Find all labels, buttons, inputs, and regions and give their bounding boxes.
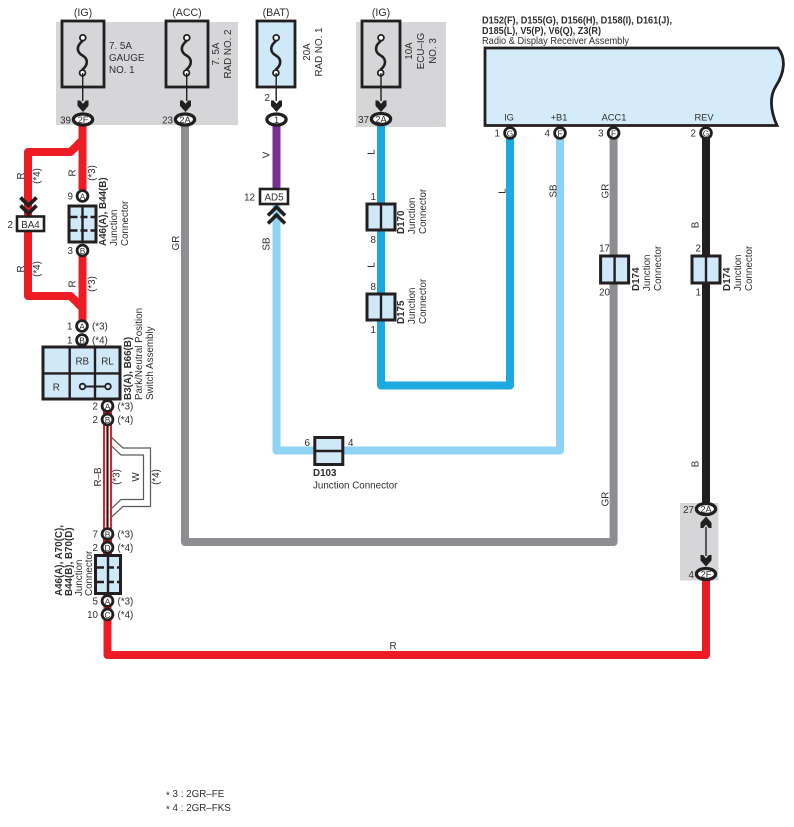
svg-text:2F: 2F <box>78 115 89 125</box>
svg-text:A: A <box>105 402 111 412</box>
svg-text:F: F <box>611 129 616 139</box>
svg-text:4: 4 <box>689 570 695 581</box>
svg-text:5: 5 <box>93 597 99 608</box>
svg-text:1: 1 <box>67 336 72 347</box>
svg-text:G: G <box>507 129 514 139</box>
wire R-B park/neutral to junction (red base) <box>103 399 112 556</box>
svg-text:Connector: Connector <box>653 245 664 291</box>
svg-text:2A: 2A <box>700 505 712 515</box>
svg-text:(*4): (*4) <box>92 336 108 347</box>
svg-text:B: B <box>691 221 702 228</box>
svg-text:RAD NO. 2: RAD NO. 2 <box>223 30 234 79</box>
svg-text:(IG): (IG) <box>372 7 390 19</box>
svg-text:G: G <box>703 129 710 139</box>
connector oval 2F pin 39 <box>73 114 92 125</box>
wire GR from ACC fuse to ACC1 <box>185 124 614 542</box>
svg-text:R–B: R–B <box>93 467 104 487</box>
svg-text:B3(A), B66(B): B3(A), B66(B) <box>123 337 134 400</box>
junction connector D170 body <box>367 204 395 230</box>
svg-text:BA4: BA4 <box>21 220 40 231</box>
svg-text:* 3 : 2GR–FE: * 3 : 2GR–FE <box>166 789 225 802</box>
svg-text:GR: GR <box>171 236 182 251</box>
svg-text:ECU–IG: ECU–IG <box>416 33 427 69</box>
svg-text:(*3): (*3) <box>92 322 108 333</box>
svg-text:F: F <box>557 129 562 139</box>
fuse F2 7.5A RAD NO.2 <box>166 21 208 87</box>
junction connector D174 (B) body <box>692 256 720 283</box>
svg-text:R: R <box>16 265 27 272</box>
svg-text:20: 20 <box>599 288 610 299</box>
connector oval 2A pin 23 <box>175 114 194 125</box>
svg-text:12: 12 <box>244 193 255 204</box>
svg-text:D103: D103 <box>313 468 337 479</box>
svg-text:Junction: Junction <box>407 198 418 235</box>
svg-text:D: D <box>104 543 110 553</box>
junction connector A46(A),A70(C),B44(B),B70(D) body <box>96 556 121 594</box>
svg-text:D175: D175 <box>396 300 407 324</box>
radio pin circle F pin4 <box>555 128 566 139</box>
svg-text:2: 2 <box>696 244 701 255</box>
svg-text:D174: D174 <box>722 267 733 291</box>
svg-text:(ACC): (ACC) <box>172 7 201 19</box>
fuse block background (IG/ACC fuses) <box>56 22 238 125</box>
wire R branch left (*4) through BA4 <box>28 140 83 308</box>
wire R-B black stripe <box>106 426 108 530</box>
svg-text:17: 17 <box>599 244 610 255</box>
svg-text:Connector: Connector <box>744 245 755 291</box>
svg-text:(*4): (*4) <box>118 543 134 554</box>
svg-text:AD5: AD5 <box>264 193 284 204</box>
svg-text:L: L <box>367 149 378 155</box>
wire R main from 2F down <box>79 124 87 190</box>
svg-text:3: 3 <box>598 129 604 140</box>
svg-text:(*4): (*4) <box>151 469 162 485</box>
wire R main B44 to park/neutral <box>79 255 87 322</box>
fuse F4 10A ECU-IG NO.3 <box>362 21 400 87</box>
connector oval 1 <box>267 114 286 125</box>
junction connector 2 pin C10 circle <box>102 609 113 620</box>
wire R-B white gap <box>105 426 110 530</box>
svg-text:8: 8 <box>371 282 377 293</box>
wire B from REV to 2A <box>702 136 710 504</box>
svg-text:A: A <box>80 192 86 202</box>
svg-text:A: A <box>105 597 111 607</box>
svg-text:GR: GR <box>601 184 612 199</box>
fuse block background (ECU-IG fuse) <box>356 22 446 127</box>
junction connector A46(A),B44(B) body <box>69 206 96 242</box>
svg-text:(*4): (*4) <box>118 610 134 621</box>
svg-text:2: 2 <box>265 93 270 104</box>
switch contact symbol <box>83 386 109 388</box>
junction connector D174 (GR) body <box>601 256 629 283</box>
park/neutral switch pin 2A circle <box>102 401 113 412</box>
svg-text:(*3): (*3) <box>87 165 98 181</box>
junction connector 2 pin D2 circle <box>102 542 113 553</box>
svg-text:W: W <box>131 472 142 482</box>
svg-text:(*3): (*3) <box>118 597 134 608</box>
svg-text:2F: 2F <box>701 570 712 580</box>
svg-text:R: R <box>389 641 396 652</box>
svg-text:D170: D170 <box>396 210 407 234</box>
svg-text:2: 2 <box>93 402 98 413</box>
svg-text:R: R <box>68 169 79 176</box>
svg-text:39: 39 <box>60 116 71 127</box>
wire R junction to 2F bottom run <box>108 578 707 655</box>
svg-text:7: 7 <box>93 530 98 541</box>
svg-text:SB: SB <box>549 184 560 198</box>
svg-text:(*4): (*4) <box>32 168 43 184</box>
svg-text:2A: 2A <box>375 115 387 125</box>
svg-text:RL: RL <box>101 357 114 368</box>
junction connector 2 pin B7 circle <box>102 529 113 540</box>
park/neutral switch pin 1B circle <box>77 335 88 346</box>
svg-text:Connector: Connector <box>120 200 131 246</box>
junction connector D175 body <box>367 294 395 320</box>
svg-text:Junction: Junction <box>733 255 744 292</box>
svg-text:R: R <box>53 383 60 394</box>
svg-text:7. 5A: 7. 5A <box>109 41 132 52</box>
svg-text:3: 3 <box>68 246 74 257</box>
svg-text:7. 5A: 7. 5A <box>211 42 222 65</box>
wire option bracket W (*4) <box>111 437 151 518</box>
svg-text:(*4): (*4) <box>118 415 134 426</box>
inline connector chevron from AD5 (up) <box>268 207 285 216</box>
svg-text:B: B <box>105 415 111 425</box>
svg-text:(*3): (*3) <box>118 402 134 413</box>
svg-text:L: L <box>498 188 509 194</box>
fuse F4 output line and arrow <box>380 73 382 101</box>
radio pin circle F pin3 <box>608 128 619 139</box>
svg-text:1: 1 <box>274 115 279 125</box>
svg-text:Connector: Connector <box>418 278 429 324</box>
svg-text:4: 4 <box>348 438 354 449</box>
splice arrows between 2A and 2F <box>705 527 707 556</box>
svg-text:C: C <box>104 610 110 620</box>
svg-text:2: 2 <box>691 129 696 140</box>
fuse F1 7.5A GAUGE NO.1 <box>62 21 104 87</box>
svg-text:6: 6 <box>305 438 311 449</box>
svg-text:(IG): (IG) <box>74 7 92 19</box>
svg-text:10: 10 <box>87 610 98 621</box>
splice block background 2A/2F <box>680 503 719 581</box>
fuse F2 output line and arrow <box>186 73 188 101</box>
svg-text:37: 37 <box>358 115 369 126</box>
svg-text:GAUGE: GAUGE <box>109 53 145 64</box>
fuse F3 20A RAD NO.1 <box>257 21 295 87</box>
svg-text:2: 2 <box>8 220 13 231</box>
svg-text:L: L <box>367 262 378 268</box>
svg-text:Junction Connector: Junction Connector <box>313 481 398 492</box>
svg-text:A: A <box>79 322 85 332</box>
svg-text:(BAT): (BAT) <box>263 7 290 19</box>
svg-text:GR: GR <box>601 492 612 507</box>
svg-text:1: 1 <box>371 192 376 203</box>
svg-text:1: 1 <box>696 288 701 299</box>
svg-text:IG: IG <box>504 113 514 123</box>
svg-text:ACC1: ACC1 <box>602 113 627 123</box>
svg-text:(*4): (*4) <box>32 261 43 277</box>
svg-text:R: R <box>16 172 27 179</box>
svg-text:B: B <box>105 530 111 540</box>
svg-text:2A: 2A <box>179 115 191 125</box>
svg-text:* 4 : 2GR–FKS: * 4 : 2GR–FKS <box>166 803 231 816</box>
park/neutral switch pin 1A circle <box>77 321 88 332</box>
park/neutral position switch body B3(A),B66(B) <box>43 347 120 399</box>
svg-text:NO. 1: NO. 1 <box>109 65 135 76</box>
svg-text:Radio & Display Receiver Assem: Radio & Display Receiver Assembly <box>482 36 629 47</box>
svg-text:4: 4 <box>545 129 551 140</box>
svg-text:B: B <box>691 460 702 467</box>
svg-text:Junction: Junction <box>642 255 653 292</box>
svg-text:(*3): (*3) <box>87 276 98 292</box>
wire V from BAT fuse to AD5 <box>273 124 281 192</box>
wire SB from AD5 through D103 to +B1 <box>277 136 561 451</box>
junction connector pin B3 circle <box>77 245 88 256</box>
wire R stub into switch box <box>79 340 87 348</box>
radio & display receiver assembly U1 box <box>485 48 783 126</box>
radio pin circle G pin1 <box>505 128 516 139</box>
svg-text:RAD NO. 1: RAD NO. 1 <box>314 28 325 77</box>
svg-text:1: 1 <box>371 325 376 336</box>
svg-text:Junction: Junction <box>109 210 120 247</box>
svg-text:8: 8 <box>371 235 377 246</box>
wire L from ECU-IG fuse through D170 D175 to IG <box>381 124 510 386</box>
junction connector A46(A),B44(B) pin A9 circle <box>77 191 88 202</box>
svg-text:(*3): (*3) <box>118 530 134 541</box>
svg-text:1: 1 <box>67 322 72 333</box>
svg-text:(*3): (*3) <box>112 469 123 485</box>
svg-text:9: 9 <box>68 192 73 203</box>
fuse F1 output line and arrow <box>82 73 84 101</box>
svg-text:+B1: +B1 <box>551 113 568 123</box>
svg-text:R: R <box>68 280 79 287</box>
svg-text:Switch Assembly: Switch Assembly <box>145 326 156 400</box>
svg-text:2: 2 <box>93 415 98 426</box>
svg-text:RB: RB <box>75 357 89 368</box>
svg-text:1: 1 <box>495 129 500 140</box>
svg-text:20A: 20A <box>302 43 313 61</box>
svg-text:D174: D174 <box>631 267 642 291</box>
svg-text:NO. 3: NO. 3 <box>428 38 439 64</box>
svg-text:Park/Neutral Position: Park/Neutral Position <box>134 308 145 400</box>
junction connector 2 pin A5 circle <box>102 596 113 607</box>
svg-text:23: 23 <box>162 116 173 127</box>
radio pin circle G pin2 <box>701 128 712 139</box>
svg-text:27: 27 <box>683 505 694 516</box>
svg-text:REV: REV <box>694 113 714 123</box>
park/neutral switch pin 2B circle <box>102 414 113 425</box>
connector oval 2A pin 37 <box>371 114 390 125</box>
svg-text:10A: 10A <box>404 42 415 60</box>
connector oval 2F pin 4 <box>696 569 715 580</box>
svg-text:Connector: Connector <box>84 550 95 596</box>
svg-text:Connector: Connector <box>418 188 429 234</box>
svg-text:A46(A), B44(B): A46(A), B44(B) <box>98 177 109 246</box>
connector AD5 pin 12 <box>260 189 288 204</box>
svg-text:Junction: Junction <box>407 288 418 325</box>
connector BA4 pin 2 <box>17 217 44 232</box>
svg-text:B: B <box>79 336 85 346</box>
junction connector D103 body <box>315 438 343 465</box>
inline connector chevron to BA4 (down) <box>21 198 37 206</box>
fuse F3 output line and arrow, pin 2 <box>275 73 277 101</box>
connector oval 2A pin 27 <box>696 504 715 515</box>
svg-text:SB: SB <box>262 237 273 251</box>
svg-text:B: B <box>80 246 86 256</box>
svg-text:V: V <box>262 151 273 158</box>
